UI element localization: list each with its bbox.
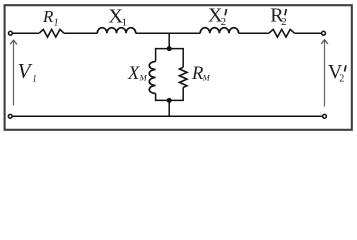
wire: left shunt branch upper segment [155, 48, 157, 62]
terminal: bottom-left [8, 114, 12, 118]
resistor RM [179, 67, 187, 87]
wire: X1 to X2' (through top junction) [136, 32, 201, 34]
svg-text:2: 2 [281, 16, 287, 28]
wire: top-left lead to R1 [13, 32, 39, 34]
label V2' [328, 61, 346, 85]
terminal: bottom-right [323, 114, 327, 118]
svg-text:X: X [127, 64, 140, 84]
wire: shunt branch top bar [156, 48, 184, 50]
node: top shunt junction [167, 46, 172, 51]
svg-text:M: M [202, 72, 211, 82]
inductor X1 [97, 28, 135, 33]
inductor X2' [200, 28, 238, 34]
wire: bottom rail [13, 115, 323, 117]
label X1 [108, 5, 127, 28]
wire: stub from top rail down to shunt junction [168, 33, 170, 48]
inductor XM [149, 62, 155, 94]
wire: R2' to right terminal [295, 32, 322, 34]
wire: R1 to X1 [64, 32, 97, 34]
svg-text:2: 2 [221, 16, 227, 28]
wire: shunt junction down to bottom rail [168, 100, 170, 116]
label R2' [270, 5, 286, 28]
svg-text:1: 1 [122, 16, 128, 28]
arrow: V1 polarity (shaft) [13, 41, 15, 105]
label RM [191, 64, 211, 84]
node: bottom shunt junction [167, 98, 172, 103]
border frame [5, 5, 352, 130]
label X2' [208, 5, 227, 28]
svg-text:1: 1 [54, 18, 59, 29]
svg-text:V: V [18, 59, 33, 83]
terminal: top-left input [9, 31, 13, 35]
svg-text:1: 1 [32, 74, 37, 84]
resistor R2' [269, 29, 295, 37]
arrow: V2' head [321, 40, 328, 44]
svg-text:R: R [42, 7, 54, 26]
wire: right shunt branch upper segment [182, 48, 184, 67]
svg-text:2: 2 [339, 74, 344, 85]
terminal: top-right output [322, 31, 326, 35]
wire: left shunt branch lower segment [156, 87, 184, 100]
svg-text:R: R [191, 64, 203, 84]
arrow: V1 head [10, 40, 17, 44]
wire: X2' to R2' [239, 32, 269, 34]
svg-text:M: M [139, 73, 148, 83]
label XM [127, 64, 148, 84]
arrow: V2' polarity (shaft) [324, 41, 326, 107]
label R1 [42, 7, 59, 29]
label V1 [18, 59, 37, 84]
resistor R1 [39, 29, 64, 37]
